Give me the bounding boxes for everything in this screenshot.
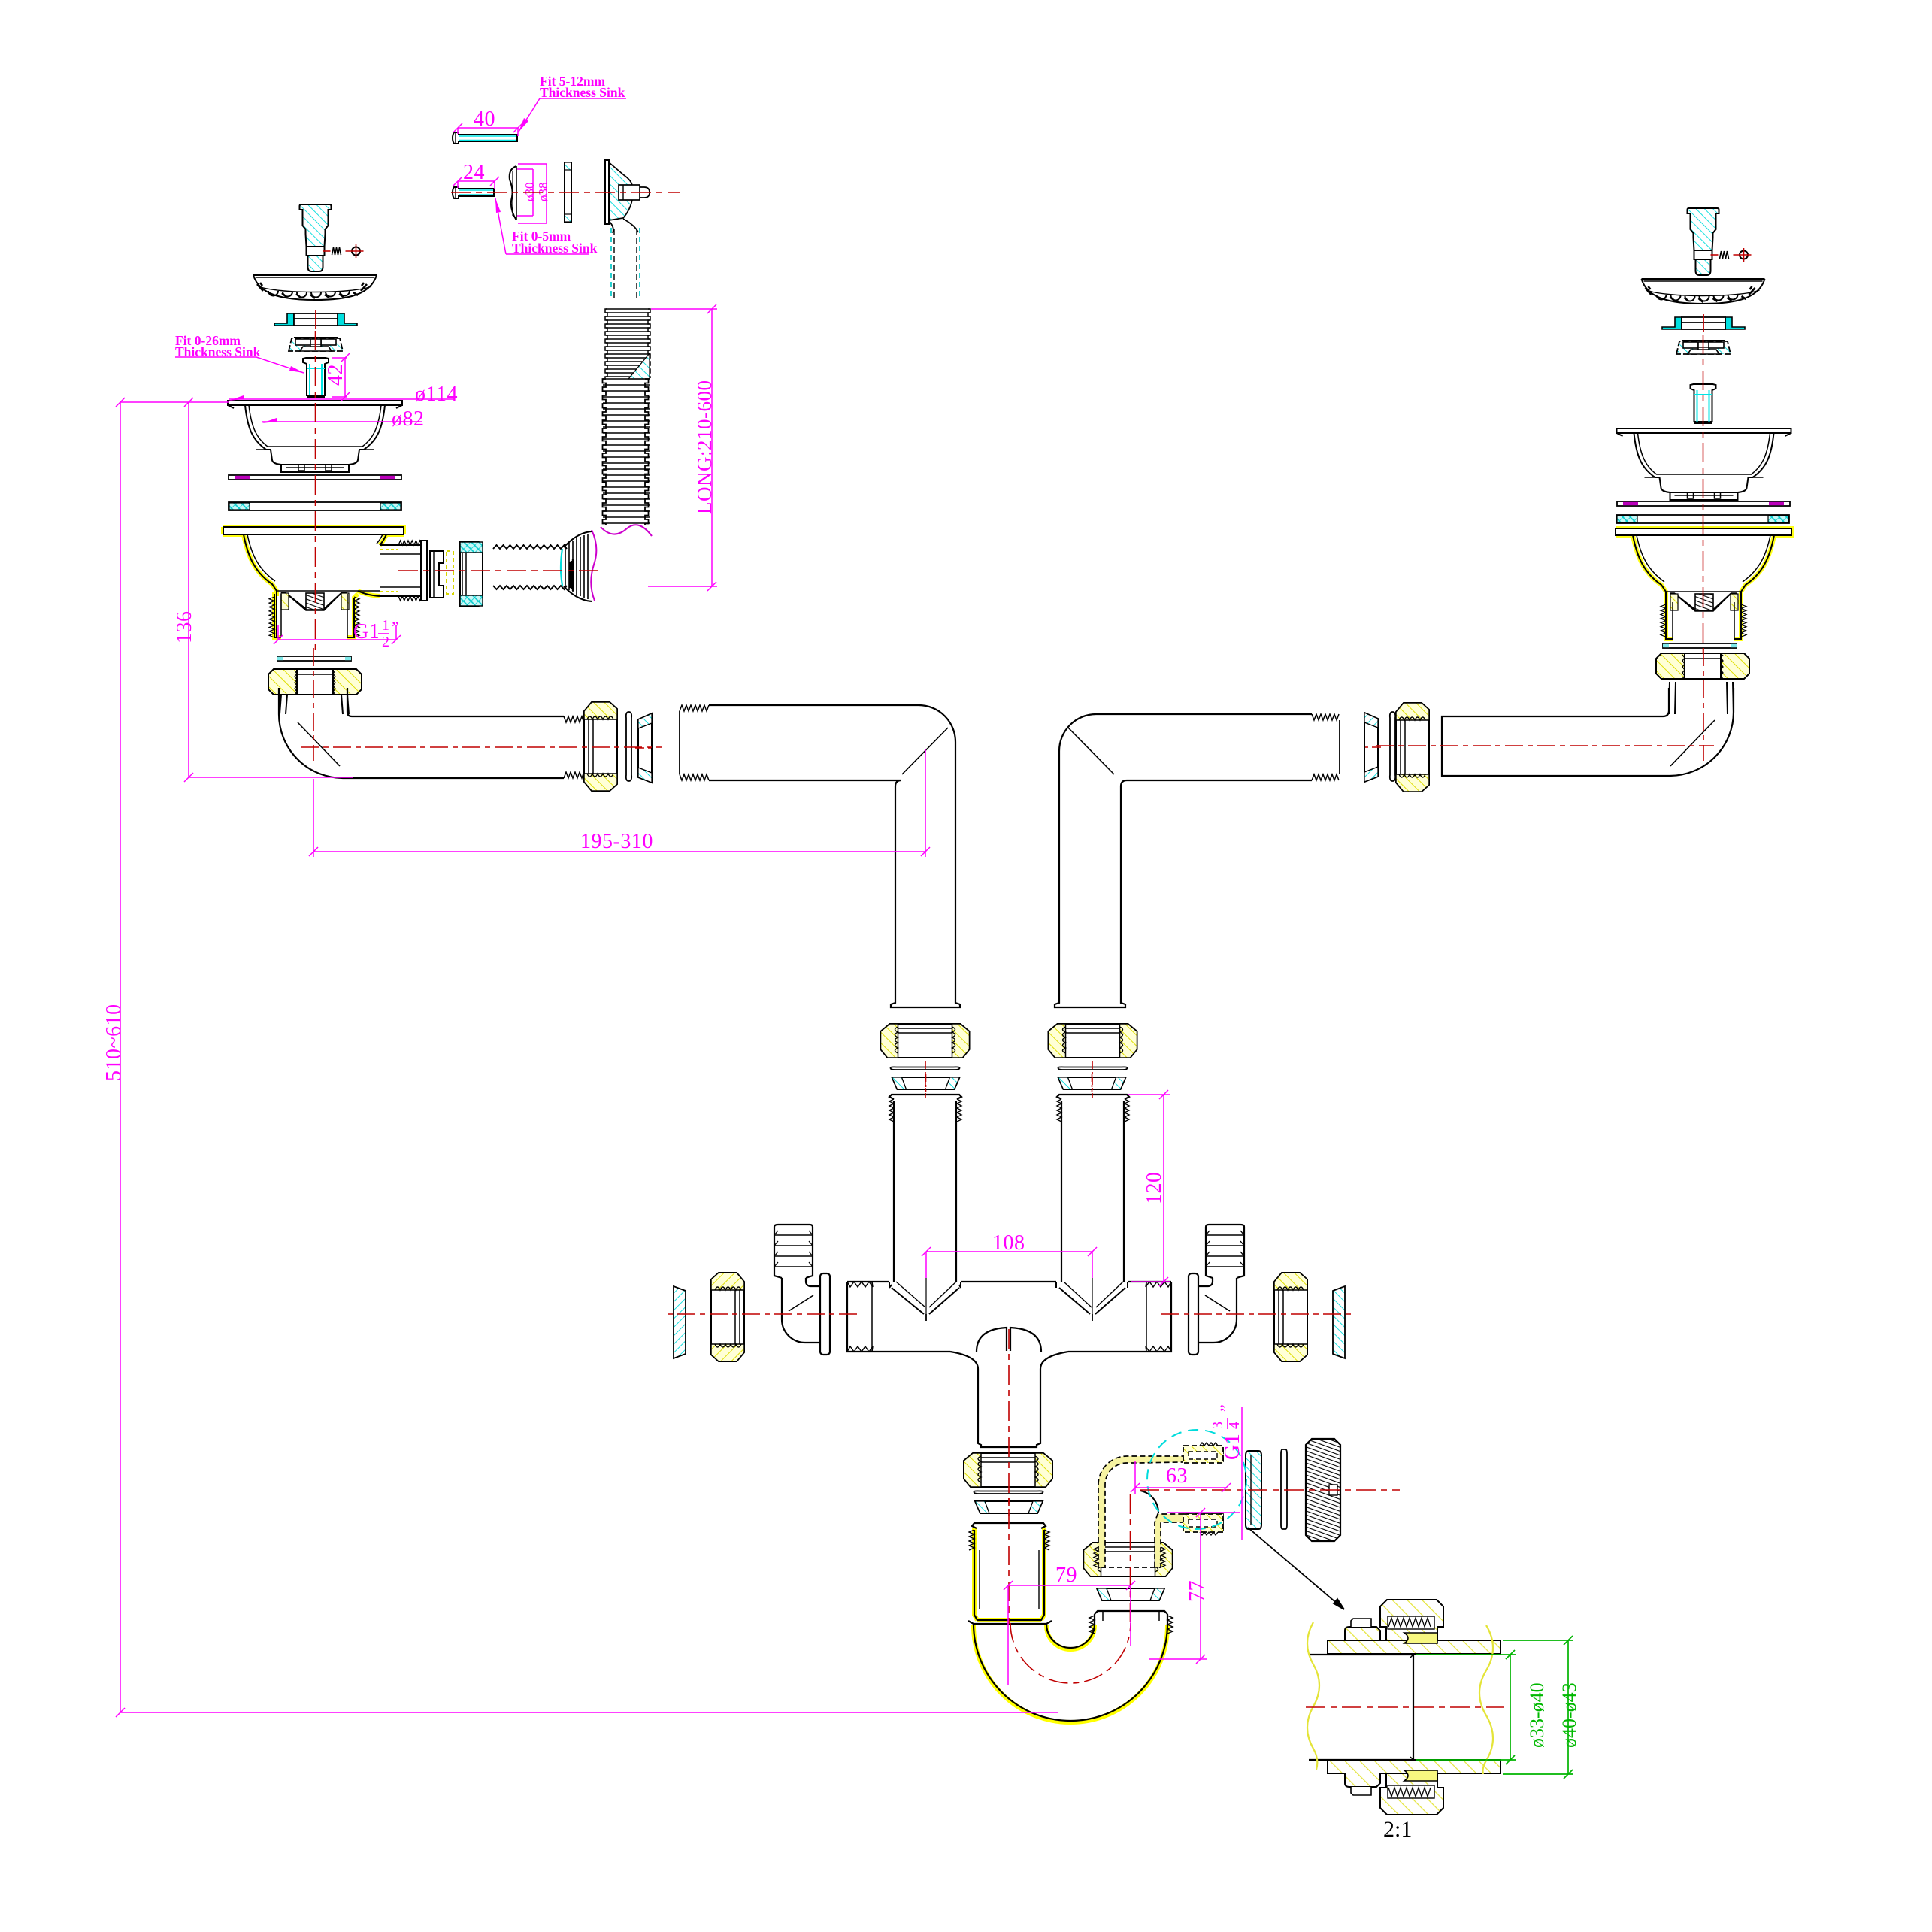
dim 108 (922, 1247, 1097, 1278)
svg-text:24: 24 (463, 161, 485, 184)
svg-text:”: ” (392, 618, 399, 637)
left basket strainer (253, 275, 377, 300)
detail inner pipe (1309, 1655, 1413, 1760)
svg-text:42: 42 (324, 364, 347, 386)
svg-text:ø82: ø82 (392, 407, 425, 431)
fit annotation texts (175, 74, 625, 359)
trap outlet elbow (1094, 1443, 1223, 1567)
leader fit 0-5 (495, 198, 589, 254)
left body funnel and coil (277, 591, 380, 610)
right sink flange bowl (1617, 428, 1791, 500)
side port nut (1274, 1273, 1307, 1361)
green detail dims (1416, 1636, 1573, 1779)
overflow corrugated cone (561, 531, 592, 601)
right junction nut (1396, 703, 1429, 792)
left cyan washer (229, 502, 401, 510)
dim 24 (453, 177, 499, 189)
svg-text:79: 79 (1055, 1564, 1077, 1587)
left body side outlet tube (358, 541, 427, 601)
dim Ø30 bracket (517, 169, 533, 216)
svg-text:195-310: 195-310 (580, 830, 653, 853)
detail break curves (1307, 1622, 1319, 1770)
right middle pipe with downward elbow (1055, 714, 1340, 1007)
svg-text:ø114: ø114 (415, 383, 458, 406)
leader fit 0-26 (175, 357, 304, 373)
remaining centerlines (316, 192, 1703, 654)
SEC_DETAIL (1306, 1600, 1504, 1815)
left inlet pipe (threaded top) (889, 1095, 961, 1282)
detail outer pipe shell (1328, 1619, 1500, 1795)
detail leader arrow (1248, 1528, 1344, 1609)
right inlet pipe (threaded top) (1057, 1095, 1129, 1282)
outlet thin washer (974, 1491, 1043, 1494)
svg-text:510~610: 510~610 (102, 1004, 126, 1081)
dim Ø38 bracket (518, 164, 547, 223)
detail top nut (1380, 1600, 1443, 1640)
trap leg nut (1084, 1543, 1173, 1576)
manifold center dome (977, 1328, 1041, 1352)
svg-text:LONG:210-600: LONG:210-600 (693, 380, 716, 514)
right tailpiece (1691, 384, 1716, 423)
detail centerline (1306, 1706, 1504, 1708)
right leg thin washer (1058, 1067, 1128, 1070)
left outlet elbow pipe (279, 688, 583, 778)
left elbow centerlines (313, 648, 314, 761)
overflow hose break curve (601, 525, 652, 536)
dim 40 (453, 123, 522, 136)
dim 79 (1004, 1581, 1135, 1685)
overflow housing bell (605, 160, 650, 299)
overflow flat ring (565, 162, 571, 222)
leader fit 5-12 (519, 98, 626, 132)
SEC_OVERFLOW (430, 132, 652, 606)
trap chain centerlines (1008, 1329, 1010, 1624)
manifold outlet tube (950, 1352, 1068, 1447)
right nut-to-elbow taper tube (1669, 682, 1734, 714)
svg-text:ø33-ø40: ø33-ø40 (1526, 1682, 1548, 1748)
dim 510~610 (116, 398, 1058, 1717)
right leg cone washer (1058, 1074, 1126, 1092)
right basket strainer (1642, 279, 1765, 304)
overflow screw 40mm (453, 132, 517, 144)
cone break curve (591, 530, 596, 601)
trap J-bend (968, 1611, 1173, 1722)
left strainer body (yellow outlined, with side outlet) (223, 527, 427, 637)
svg-text:1: 1 (382, 617, 390, 634)
overflow hose corrugations (603, 379, 650, 525)
svg-text:63: 63 (1166, 1464, 1188, 1488)
side-outlet dashed ring (447, 551, 453, 594)
overflow screw 24mm (453, 187, 494, 198)
left white washer (277, 656, 351, 661)
right side port group (1161, 1225, 1353, 1361)
detail callout circle (1147, 1430, 1246, 1529)
left leg cone washer (892, 1074, 960, 1092)
svg-text:2: 2 (382, 634, 390, 650)
leg centerline ticks (925, 1061, 926, 1098)
side-outlet cup washer (430, 551, 444, 598)
trap leg cone washer (1097, 1585, 1164, 1603)
overflow hose threaded top (605, 309, 650, 379)
dim Ø114 leader (229, 395, 455, 401)
left seal gasket (274, 310, 357, 329)
left middle pipe with downward elbow (680, 705, 960, 1007)
left junction cone washer (635, 713, 655, 783)
dim 42 (332, 353, 350, 401)
label G1 3/4 line (1241, 1407, 1243, 1540)
overflow horizontal corrugated pipe (493, 545, 567, 589)
side barb elbow (1189, 1225, 1244, 1355)
manifold end threads (847, 1282, 873, 1352)
svg-text:40: 40 (474, 108, 495, 131)
svg-text:Thickness Sink: Thickness Sink (512, 241, 598, 256)
dim 195-310 (309, 749, 930, 857)
right body funnel and coil (1666, 592, 1741, 611)
right outlet elbow pipe (1442, 688, 1734, 776)
svg-text:3: 3 (1210, 1422, 1226, 1430)
right flat washer (1617, 501, 1790, 506)
dim 120 (1128, 1090, 1170, 1286)
svg-text:108: 108 (992, 1231, 1025, 1255)
right junction washer (1390, 712, 1395, 781)
dim 136 (184, 398, 353, 782)
detail bottom nut (1380, 1773, 1443, 1815)
svg-text:120: 120 (1143, 1172, 1166, 1205)
side port centerline (1161, 1313, 1353, 1315)
svg-text:4: 4 (1226, 1422, 1243, 1430)
dim LONG 210-600 (648, 304, 717, 591)
overflow rubber washer (510, 166, 516, 220)
trap outlet blank nut (1306, 1439, 1340, 1541)
left junction nut (584, 702, 617, 791)
right mounting head (1676, 341, 1731, 354)
svg-text:Thickness Sink: Thickness Sink (175, 344, 261, 359)
left junction washer (626, 712, 631, 781)
outlet cone washer (975, 1498, 1043, 1516)
dim 63 (1131, 1461, 1231, 1494)
right white washer (1663, 643, 1737, 648)
right stopper (1688, 208, 1752, 275)
side port cyan disc (1333, 1286, 1345, 1358)
svg-text:”: ” (1216, 1404, 1235, 1412)
trap inlet tube (969, 1523, 1049, 1620)
left nut-to-elbow taper tube (280, 695, 349, 714)
svg-text:G1: G1 (353, 620, 380, 643)
right junction cone washer (1361, 713, 1381, 782)
svg-text:136: 136 (173, 611, 196, 644)
dim 77 (1149, 1508, 1240, 1664)
right hex nut (1656, 653, 1749, 679)
svg-text:Thickness Sink: Thickness Sink (540, 85, 625, 100)
right elbow centerlines (1703, 648, 1704, 761)
dim texts magenta (102, 108, 1244, 1602)
manifold outlet nut (964, 1453, 1052, 1487)
left tailpiece (303, 358, 329, 397)
left hex nut (268, 669, 362, 695)
right seal gasket (1662, 314, 1745, 332)
svg-text:ø40-ø43: ø40-ø43 (1558, 1682, 1580, 1748)
left stopper (300, 204, 364, 271)
side-outlet cyan nut (460, 542, 483, 606)
svg-text:2:1: 2:1 (1383, 1817, 1412, 1842)
left leg thin washer (891, 1067, 960, 1070)
left flat washer (229, 475, 401, 480)
svg-text:77: 77 (1186, 1580, 1209, 1602)
left leg compression nut (881, 1024, 970, 1058)
left sink flange bowl (228, 401, 402, 472)
right leg compression nut (1049, 1024, 1137, 1058)
dim Ø82 leader (262, 418, 422, 423)
SEC_DIMS (116, 98, 1242, 1717)
trap outlet cyan ring (1246, 1451, 1261, 1529)
detail olive wedges (1404, 1633, 1437, 1643)
right body threaded tube (1661, 602, 1746, 639)
left side port group (mirror) (665, 1225, 857, 1361)
manifold tee body (847, 1278, 1171, 1447)
dim G1 1/2 line (274, 625, 401, 644)
trap outlet thin ring (1281, 1449, 1287, 1529)
right strainer body (yellow outlined) (1616, 528, 1791, 639)
right cyan washer (1616, 515, 1789, 523)
svg-text:G1: G1 (1221, 1434, 1244, 1460)
left mounting head (289, 338, 343, 351)
left body threaded tube (269, 594, 359, 637)
